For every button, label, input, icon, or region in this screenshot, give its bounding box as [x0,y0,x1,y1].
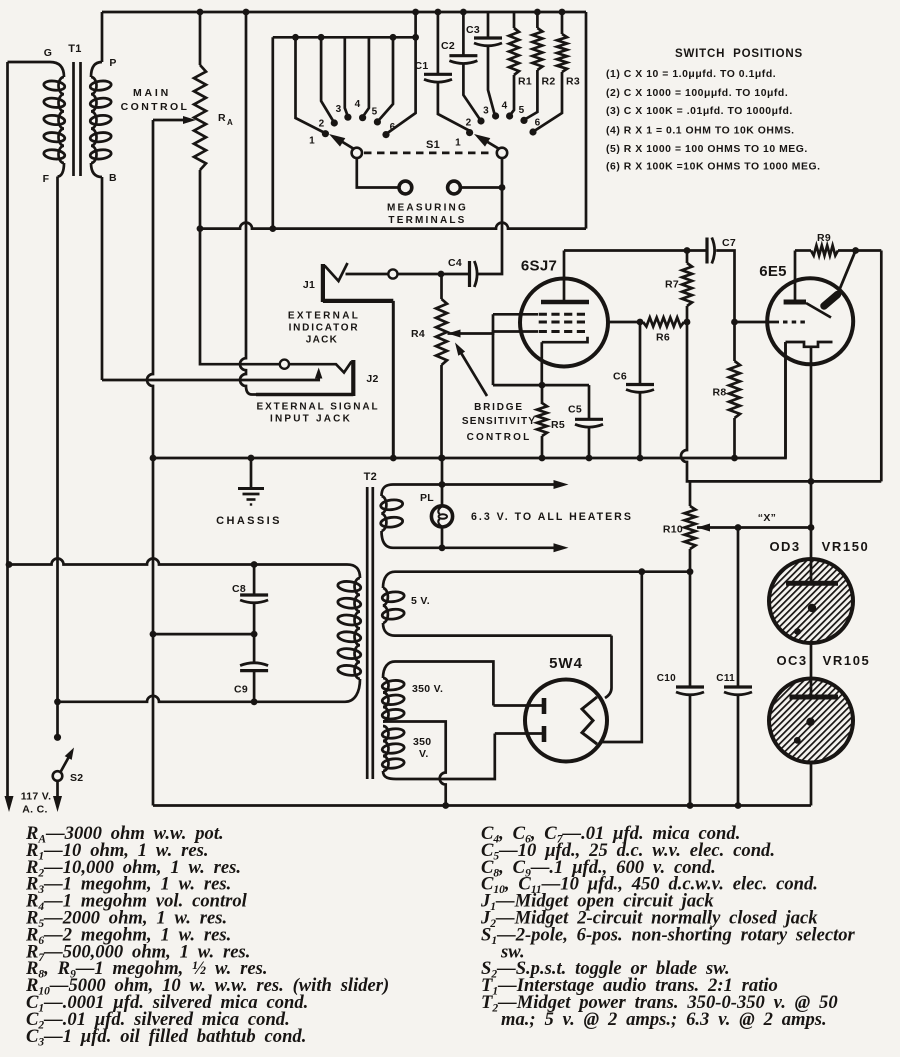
wire: 6E5 target down to B+ wire [810,347,813,482]
transformer T2 [366,487,369,779]
svg-text:S2: S2 [70,772,83,784]
T2 350V winding lower [383,726,389,771]
wire: MAIN CONTROL wiper arm of RA [153,119,188,122]
svg-text:6.3 V. TO ALL HEATERS: 6.3 V. TO ALL HEATERS [471,511,633,523]
resistor R2 [536,12,539,28]
svg-text:A: A [227,118,233,127]
svg-text:A. C.: A. C. [22,804,47,816]
6E5 ray-control electrode [840,251,856,290]
wire: RA wiper down to chassis (hops B-wire) [147,120,153,458]
tube 5W4 rectifier [525,680,607,762]
svg-text:OD3: OD3 [770,539,801,554]
wire: left contact 4 lead [363,37,369,116]
wire: B- bottom bus [153,804,811,807]
svg-text:F: F [43,173,50,185]
capacitor C11 [737,528,740,688]
wire: RA top lead [199,12,202,65]
tube 6SJ7 [520,279,608,367]
svg-text:R2: R2 [541,76,555,88]
svg-text:(1) C X 10 = 1.0μμfd. TO 0.1μf: (1) C X 10 = 1.0μμfd. TO 0.1μfd. [606,69,776,80]
resistor R10 (with slider) [689,481,692,506]
S1 left pole contacts 1-6 [322,130,329,137]
S1 right pole contacts 1-6 [466,129,473,136]
wire: R6/R7 node down to B+ line, hops chassis bus [681,322,881,481]
wire: S1 left contact bus [273,36,416,39]
svg-text:(6) R X 100K =10K OHMS TO 1000: (6) R X 100K =10K OHMS TO 1000 MEG. [606,162,821,173]
resistor R9 [795,249,811,252]
capacitor C5 [588,385,591,419]
svg-text:S1: S1 [426,139,440,151]
S1 right wiper [497,148,507,158]
chassis ground symbol [250,458,253,487]
wire: 5W4 filament right to 5V top lead [601,572,642,742]
svg-text:R8: R8 [712,387,726,399]
tube OD3/VR150 regulator [769,559,853,643]
svg-text:R3: R3 [566,76,580,88]
resistor R3 [561,12,564,34]
svg-text:CONTROL: CONTROL [121,101,190,113]
svg-text:PL: PL [420,492,434,504]
svg-text:5: 5 [519,105,525,116]
wire: 6E5 cathode down to chassis bus [784,342,787,458]
svg-text:6E5: 6E5 [759,263,787,280]
wire: F line down to S2 [56,177,59,735]
wire: right wiper column down to C4 (y228 wire hops it) [478,158,502,274]
svg-text:SENSITIVITY: SENSITIVITY [462,416,536,427]
svg-text:350 V.: 350 V. [412,683,443,695]
svg-text:R7: R7 [665,279,679,291]
svg-text:117 V.: 117 V. [21,791,52,803]
svg-text:C4: C4 [448,257,462,269]
svg-text:1: 1 [309,136,315,147]
svg-text:4: 4 [502,101,508,112]
wire: R4 wiper to 6SJ7 grid bracket [448,330,461,338]
svg-text:V.: V. [419,748,429,760]
tube 6E5 (magic eye) [767,278,853,364]
jack J1 (open circuit) [321,264,325,302]
capacitor C9 [253,634,256,663]
svg-text:VR150: VR150 [822,539,870,554]
resistor RA [194,65,206,170]
wire: F line to T2 primary bottom (hops chassis drop) [58,679,361,702]
svg-text:EXTERNAL SIGNAL: EXTERNAL SIGNAL [257,402,380,413]
wire: grid bracket vertical [492,314,495,385]
resistor R6 [643,318,684,327]
svg-text:SWITCH POSITIONS: SWITCH POSITIONS [675,48,803,60]
wire: RA bottom lead [199,170,202,229]
T2 350V winding upper [383,678,389,722]
wire: bridge node horizontal y=228 (hops two verticals) [200,223,586,229]
wire: grid wire to 6E5 [735,321,780,324]
svg-text:TERMINALS: TERMINALS [388,215,466,226]
wire: 117VAC left line from G [6,62,9,797]
svg-text:C3: C3 [466,24,480,36]
svg-text:5: 5 [372,107,378,118]
tube OC3/VR105 regulator [769,679,853,763]
svg-text:ma.; 5 v. @ 2 amps.; 6.3 v. @: ma.; 5 v. @ 2 amps.; 6.3 v. @ 2 amps. [501,1009,827,1030]
resistor R5 [541,385,544,404]
svg-text:T2: T2 [364,471,377,483]
wire: X slider arrow line [697,524,710,532]
wire: B+ down to OD3 [810,481,813,559]
transformer T1 [8,62,65,77]
svg-text:2: 2 [466,118,472,129]
wire: C8/C9 mid junction [153,633,254,636]
jack J1 sleeve to chassis [323,299,393,303]
svg-text:MEASURING: MEASURING [387,203,468,214]
117VAC arrows [5,796,14,812]
svg-text:R: R [218,112,226,124]
svg-text:(5) R X 1000 = 100 OHMS TO 10: (5) R X 1000 = 100 OHMS TO 10 MEG. [606,144,808,155]
svg-text:5 V.: 5 V. [411,595,430,607]
wire: OD3 to OC3 [810,642,813,679]
svg-text:C2: C2 [441,40,455,52]
svg-text:C5: C5 [568,404,582,416]
svg-text:C7: C7 [722,237,736,249]
svg-text:R9: R9 [817,232,831,244]
svg-text:B: B [109,172,117,184]
svg-text:4: 4 [355,99,361,110]
svg-text:P: P [109,57,116,69]
svg-text:350: 350 [413,736,431,748]
svg-text:R4: R4 [411,328,425,340]
svg-text:S1​—2-pole, 6-pos. non-shortin: S1​—2-pole, 6-pos. non-shorting rotary s… [481,924,856,947]
wire: P lead up to top bus [101,12,104,62]
resistor R7 [686,251,689,264]
capacitor C7 [687,249,707,252]
svg-text:3: 3 [336,104,342,115]
svg-text:(3) C X 100K = .01μfd. TO 1000: (3) C X 100K = .01μfd. TO 1000μfd. [606,106,793,117]
svg-text:R6: R6 [656,332,670,344]
wire: left wiper to measuring terminal [357,158,399,187]
svg-text:CHASSIS: CHASSIS [216,515,282,527]
wire: bridge node down to J2 tip [200,229,280,365]
svg-text:MAIN: MAIN [133,87,171,99]
svg-text:VR105: VR105 [823,653,871,668]
svg-text:J1: J1 [303,279,315,291]
wire: OC3 bottom to B- bus [810,762,813,806]
svg-text:INPUT JACK: INPUT JACK [270,414,352,425]
capacitor C8 [253,565,256,596]
wire: left contact 3 lead [345,37,348,115]
wire: B-wire to J2 normally-closed contact arrow [102,372,319,380]
wire: top bus right edge down to bridge node wire [585,12,588,229]
wire: 6SJ7 grid row to R6/C6 node [606,321,640,324]
svg-text:C8: C8 [232,583,246,595]
svg-text:2: 2 [319,119,325,130]
capacitor C1 [437,12,440,74]
wire: chassis bus [153,342,786,458]
capacitor C2 [462,12,465,56]
capacitor C10 [689,572,692,687]
capacitor C6 [639,322,642,385]
wire: left contact 6 lead, rises to top bus [388,12,416,133]
wire: 117VAC line tap to T2 primary (hops F wire and chassis drop) [9,559,360,579]
wire: left contact 1 lead [296,37,325,132]
wire: left contact 2 lead [321,37,333,121]
capacitor C3 [487,12,490,38]
svg-text:1: 1 [455,138,461,149]
svg-text:C3​—1 μfd. oil filled bathtub: C3​—1 μfd. oil filled bathtub cond. [26,1026,306,1049]
svg-text:EXTERNAL: EXTERNAL [288,311,360,322]
wire: right terminal to wiper column [461,186,503,189]
svg-text:C9: C9 [234,684,248,696]
wire: top bus to J2 sleeve (hops 3 wires) [240,12,256,395]
svg-text:INDICATOR: INDICATOR [289,323,360,334]
resistor R8 [733,322,736,361]
svg-text:JACK: JACK [306,335,338,346]
wire: B lead down [101,177,104,380]
svg-text:CONTROL: CONTROL [467,432,532,443]
S1 dashed gang line [364,152,494,155]
measuring terminal J right [448,181,461,194]
wire: top bus [102,11,586,14]
wire: T2 center tap to B- bus (hops lower lead) [383,722,446,806]
T2 primary winding [355,578,361,679]
svg-text:OC3: OC3 [777,653,808,668]
svg-text:6: 6 [390,122,396,133]
wire: S2 to 117VAC [56,781,59,797]
svg-text:6: 6 [535,118,541,129]
svg-text:(4) R X 1 = 0.1 OHM TO 10K OHM: (4) R X 1 = 0.1 OHM TO 10K OHMS. [606,126,795,137]
svg-text:R1: R1 [518,76,532,88]
wire: 6SJ7 plate to C7/R7 node [564,249,687,252]
resistor R1 [513,12,516,28]
T2 5V winding [383,588,388,623]
S1 left wiper [352,148,362,158]
wire: left contact 5 lead [379,37,394,120]
svg-text:6SJ7: 6SJ7 [521,258,557,275]
svg-text:(2) C X 1000 = 100μμfd. TO 10μ: (2) C X 1000 = 100μμfd. TO 10μfd. [606,88,788,99]
svg-text:C10: C10 [657,673,676,684]
wire: chassis drop to C8/C9 midpoint and B- bus [152,458,155,634]
jack J2 (2-circuit normally closed) [280,360,289,369]
pilot lamp PL [441,458,444,506]
svg-text:5W4: 5W4 [549,655,583,672]
switch S2 [54,734,61,741]
measuring terminal J left [399,181,412,194]
svg-text:R10: R10 [663,524,683,536]
svg-text:“X”: “X” [758,512,776,524]
wire: S1 left bus drop to node [271,37,274,228]
wire: cathode line to C5 corner [493,384,589,387]
svg-text:C6: C6 [613,371,627,383]
svg-text:BRIDGE: BRIDGE [474,402,524,413]
T2 heater winding [382,496,387,531]
svg-text:C1: C1 [414,60,428,72]
capacitor C4 [468,261,471,287]
svg-text:R5: R5 [551,419,565,431]
resistor R4 (vol control) [440,274,443,299]
svg-text:J2: J2 [366,373,378,385]
svg-text:3: 3 [483,106,489,117]
wire: right edge from R9 down to B+ line [880,251,883,482]
svg-text:T1: T1 [68,43,81,55]
svg-text:G: G [44,47,52,59]
svg-text:C11: C11 [716,673,735,684]
wire: T2 350V lower lead to 5W4 lower plate [383,734,495,780]
